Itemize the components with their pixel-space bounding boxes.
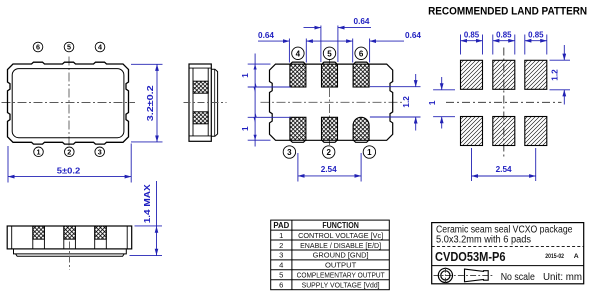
svg-text:ENABLE / DISABLE [E/D]: ENABLE / DISABLE [E/D] bbox=[300, 241, 381, 250]
table header bbox=[273, 221, 359, 230]
bottom side view pad 3 bbox=[95, 226, 107, 249]
svg-text:3: 3 bbox=[287, 148, 292, 157]
table rows bbox=[279, 231, 385, 290]
bottom view pad 2 bbox=[322, 117, 338, 140]
svg-text:5: 5 bbox=[327, 49, 332, 58]
dimension 3.2±0.2 bbox=[131, 64, 163, 142]
bottom view pad 4 bbox=[290, 64, 306, 87]
land pattern horizontal centerline bbox=[446, 101, 562, 103]
pad 6 circle bbox=[355, 47, 367, 59]
bottom side view end strips bbox=[12, 226, 128, 249]
svg-text:1: 1 bbox=[279, 231, 283, 240]
dimension 5±0.2 bbox=[8, 144, 131, 183]
svg-text:3.2±0.2: 3.2±0.2 bbox=[145, 85, 155, 121]
bottom side view body bbox=[7, 226, 132, 249]
side view lid inner line bbox=[214, 69, 216, 136]
dimension 1.2 right bbox=[370, 74, 421, 131]
svg-text:4: 4 bbox=[279, 261, 283, 270]
front view horizontal centerline bbox=[2, 102, 136, 104]
svg-text:3: 3 bbox=[279, 251, 283, 260]
bottom side view centerline bbox=[69, 242, 71, 271]
bottom view package outline bbox=[270, 62, 393, 142]
side view lid bbox=[211, 69, 217, 136]
dimension 0.85 middle bbox=[493, 35, 515, 55]
svg-text:1.4 MAX: 1.4 MAX bbox=[143, 184, 152, 224]
bottom view pad 6 bbox=[353, 64, 369, 87]
pad 4 circle bbox=[292, 47, 304, 59]
bottom view pad 1 (dome top = pin 1 marker) bbox=[353, 117, 369, 140]
dimension 0.85 right bbox=[525, 35, 547, 55]
svg-text:1: 1 bbox=[367, 148, 372, 157]
svg-text:OUTPUT: OUTPUT bbox=[325, 261, 357, 270]
pad 5 circle bbox=[323, 47, 335, 59]
svg-text:1: 1 bbox=[37, 148, 41, 157]
side view pad 1 hatch bbox=[193, 81, 208, 93]
bottom side view lid bbox=[14, 249, 127, 254]
svg-text:1: 1 bbox=[428, 100, 437, 105]
pad 2 circle bbox=[323, 146, 335, 158]
dimension 0.64 pad6 bbox=[306, 39, 404, 63]
dimension chain 1 / 1.2 left bbox=[248, 54, 291, 147]
svg-text:2: 2 bbox=[279, 241, 283, 250]
projection symbol vertical centerline bbox=[444, 268, 446, 284]
pin 5 circle bbox=[64, 42, 74, 52]
pin 3 circle bbox=[95, 147, 105, 157]
svg-text:4: 4 bbox=[296, 49, 301, 58]
dimension 1.2 land bbox=[550, 45, 571, 105]
pin 1 circle bbox=[34, 147, 44, 157]
dimension 1 land bbox=[433, 77, 455, 129]
svg-text:6: 6 bbox=[359, 49, 364, 58]
svg-text:2.54: 2.54 bbox=[321, 165, 337, 174]
svg-text:CVDO53M-P6: CVDO53M-P6 bbox=[435, 249, 506, 264]
svg-text:PAD: PAD bbox=[273, 221, 289, 230]
front view vertical centerline bbox=[68, 57, 70, 150]
svg-text:No scale: No scale bbox=[501, 272, 535, 283]
svg-text:1: 1 bbox=[241, 73, 250, 78]
svg-text:2: 2 bbox=[326, 148, 331, 157]
pin 2 circle bbox=[65, 147, 75, 157]
bottom side view pad 2 bbox=[64, 226, 76, 249]
svg-text:RECOMMENDED LAND PATTERN: RECOMMENDED LAND PATTERN bbox=[428, 6, 587, 18]
svg-text:4: 4 bbox=[98, 43, 102, 52]
title block solid divider bbox=[432, 265, 584, 267]
projection cone symbol bbox=[465, 269, 489, 282]
dimension 0.64 pad4 bbox=[258, 39, 306, 63]
dimension 0.85 left bbox=[461, 35, 483, 55]
dimension 2.54 land bbox=[472, 148, 536, 181]
dimension 1.4 MAX bbox=[130, 181, 163, 256]
svg-text:FUNCTION: FUNCTION bbox=[322, 221, 359, 230]
dimension 0.64 pad5 bbox=[304, 26, 372, 63]
land pad top-left bbox=[461, 60, 483, 89]
svg-text:6: 6 bbox=[36, 43, 40, 52]
land pad bottom-middle bbox=[493, 117, 515, 146]
svg-text:A: A bbox=[574, 253, 579, 260]
pad function table bbox=[271, 220, 390, 290]
pin 4 circle bbox=[95, 42, 105, 52]
projection symbol centerline bbox=[434, 274, 495, 276]
svg-text:0.85: 0.85 bbox=[528, 30, 544, 39]
side view step lines bbox=[189, 68, 211, 136]
land pad top-right bbox=[525, 60, 547, 89]
svg-text:5: 5 bbox=[279, 271, 283, 280]
svg-text:5.0x3.2mm with 6 pads: 5.0x3.2mm with 6 pads bbox=[436, 235, 531, 246]
svg-text:Unit: mm: Unit: mm bbox=[543, 272, 582, 283]
bottom view horizontal centerline bbox=[261, 101, 403, 103]
svg-text:COMPLEMENTARY OUTPUT: COMPLEMENTARY OUTPUT bbox=[297, 271, 385, 280]
dimension 2.54 bottom view bbox=[298, 153, 361, 182]
bottom side view pad 1 bbox=[33, 226, 45, 249]
title block border bbox=[432, 223, 584, 284]
pad 1 circle bbox=[363, 146, 375, 158]
svg-text:0.85: 0.85 bbox=[496, 30, 512, 39]
svg-text:0.64: 0.64 bbox=[354, 17, 370, 26]
side view (right of front) body bbox=[189, 64, 211, 141]
bottom view vertical centerline bbox=[329, 56, 331, 149]
svg-text:GROUND [GND]: GROUND [GND] bbox=[313, 251, 369, 260]
svg-text:2015-02: 2015-02 bbox=[545, 253, 564, 260]
front view package outer outline bbox=[8, 62, 129, 144]
front view package inner outline bbox=[12, 69, 124, 138]
side view centerline bbox=[184, 102, 227, 104]
svg-text:2: 2 bbox=[67, 148, 71, 157]
side view pad 2 hatch bbox=[193, 112, 208, 124]
bottom side view base plate bbox=[16, 254, 125, 256]
svg-text:0.64: 0.64 bbox=[405, 31, 421, 40]
pad 3 circle bbox=[283, 146, 295, 158]
svg-text:2.54: 2.54 bbox=[496, 165, 512, 174]
svg-text:1.2: 1.2 bbox=[551, 69, 560, 81]
side view pad columns bbox=[193, 68, 208, 136]
bottom view pad 5 bbox=[322, 64, 338, 87]
land pad bottom-right bbox=[525, 117, 547, 146]
pin 6 circle bbox=[33, 42, 43, 52]
title block dashed divider bbox=[432, 246, 584, 248]
land pattern vertical centerline bbox=[503, 48, 505, 160]
land pad bottom-left bbox=[461, 117, 483, 146]
svg-text:3: 3 bbox=[98, 148, 102, 157]
svg-text:SUPPLY VOLTAGE [Vdd]: SUPPLY VOLTAGE [Vdd] bbox=[302, 281, 380, 290]
svg-text:5±0.2: 5±0.2 bbox=[57, 165, 81, 175]
svg-text:CONTROL VOLTAGE [Vc]: CONTROL VOLTAGE [Vc] bbox=[298, 231, 383, 240]
projection symbol circles bbox=[438, 268, 452, 282]
land pad top-middle bbox=[493, 60, 515, 89]
svg-text:6: 6 bbox=[279, 281, 283, 290]
svg-text:0.64: 0.64 bbox=[258, 31, 274, 40]
svg-text:1.2: 1.2 bbox=[402, 96, 411, 108]
bottom view pad 3 bbox=[290, 117, 306, 140]
svg-text:0.85: 0.85 bbox=[464, 30, 480, 39]
svg-text:5: 5 bbox=[67, 43, 71, 52]
svg-text:1: 1 bbox=[241, 126, 250, 131]
